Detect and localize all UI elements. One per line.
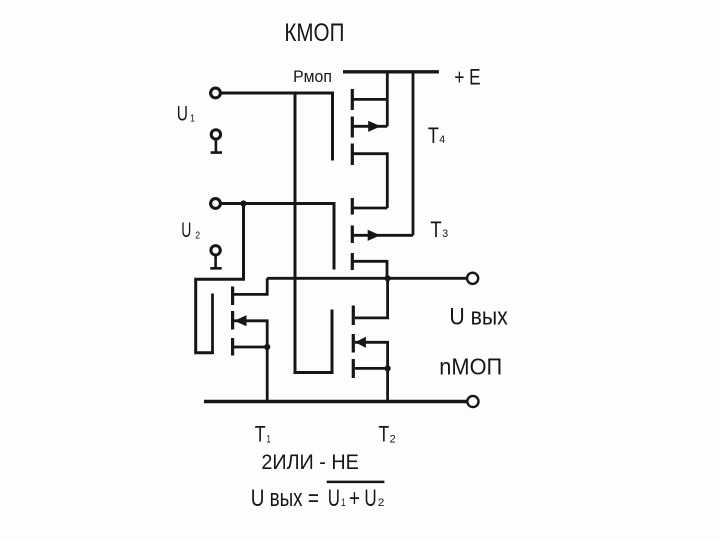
input terminal U2 [211,199,221,209]
input terminal U1 [211,88,221,98]
label T4 [428,123,445,148]
T2 substrate arrow (points left) [355,337,366,348]
transistor T4 channel bars [351,89,354,165]
bottom rail terminal [467,396,478,407]
T3 source stub with link down to output line [354,261,388,278]
equation U2 term [364,485,384,512]
T4 source stub with link down to T3 drain [354,154,388,208]
transistor T3 channel bars [351,198,354,270]
wire T1 source down to bottom rail [266,347,269,400]
svg-text:2: 2 [390,434,396,446]
svg-text:T: T [428,123,439,148]
T3 body stub to +E wire [354,234,414,237]
transistor T1 channel bars [231,287,234,356]
wire +E rail down to T3 body [412,72,415,236]
T4 drain stub [354,98,388,101]
svg-text:T: T [255,422,266,447]
svg-text:nМОП: nМОП [439,353,502,379]
T4 riser from +E rail to body stub [386,72,389,127]
svg-text:3: 3 [442,228,448,240]
T4 body stub [354,125,388,128]
junction dot on output line [385,275,391,281]
junction dot on U2 wire [240,200,246,206]
T1 substrate arrow (points left) [234,315,246,326]
label U2 [181,219,200,242]
output wire node line [267,277,466,280]
wire U1 branch down to T2 gate (vertical end part is gate of T2) [295,92,332,373]
power rail +E [343,70,439,73]
T2 source stub [355,367,388,370]
junction dot T1 source [264,344,270,350]
junction dot T2 source [385,365,391,371]
T1 body stub with link down to source [234,321,267,347]
svg-text:T: T [430,217,441,242]
svg-text:U вых: U вых [449,303,507,330]
wire U2 to T3 gate (vertical part is gate of T3) [221,204,334,270]
wire T2 source down to bottom rail [386,368,389,400]
T2 body stub with link down to source [355,342,388,368]
T2 drain stub with riser to output dot [355,278,388,318]
T1 drain stub with riser to output line [234,278,267,294]
svg-text:1: 1 [190,112,195,124]
T4 substrate arrow (points right) [368,121,381,132]
label T2 [379,422,396,447]
pin symbol under U1 [211,130,222,153]
T3 drain stub [354,207,388,210]
svg-text:+ E: + E [454,64,480,89]
label U1 [177,102,195,125]
svg-text:U: U [177,102,188,125]
label T1 [255,422,271,447]
pin symbol under U2 [210,246,221,269]
bottom rail [204,400,467,403]
svg-text:1: 1 [341,497,346,509]
wire U1 to T4 gate (vertical part is gate of T4) [221,93,333,161]
svg-text:1: 1 [267,434,271,446]
wire U2 branch down-left to foot of T1 gate [196,204,244,353]
svg-text:T: T [379,422,390,447]
equation overline [327,481,385,484]
equation U1 term [328,485,346,512]
T3 substrate arrow (points right) [368,230,381,241]
svg-text:КМОП: КМОП [284,19,344,47]
svg-text:U вых =: U вых = [251,485,319,512]
label T3 [430,217,448,242]
transistor T2 channel bars [352,306,355,379]
svg-text:2: 2 [378,497,385,509]
svg-text:2: 2 [195,230,200,242]
svg-text:U: U [328,485,340,512]
gate line of T1 [211,294,214,355]
output terminal U вых [467,273,478,284]
svg-text:U: U [364,485,376,512]
svg-text:U: U [181,219,191,242]
svg-text:Рмоп: Рмоп [293,68,332,86]
svg-text:2ИЛИ - НЕ: 2ИЛИ - НЕ [261,451,358,474]
svg-text:4: 4 [439,134,445,146]
T1 source stub [234,346,267,349]
svg-text:+: + [349,485,360,512]
